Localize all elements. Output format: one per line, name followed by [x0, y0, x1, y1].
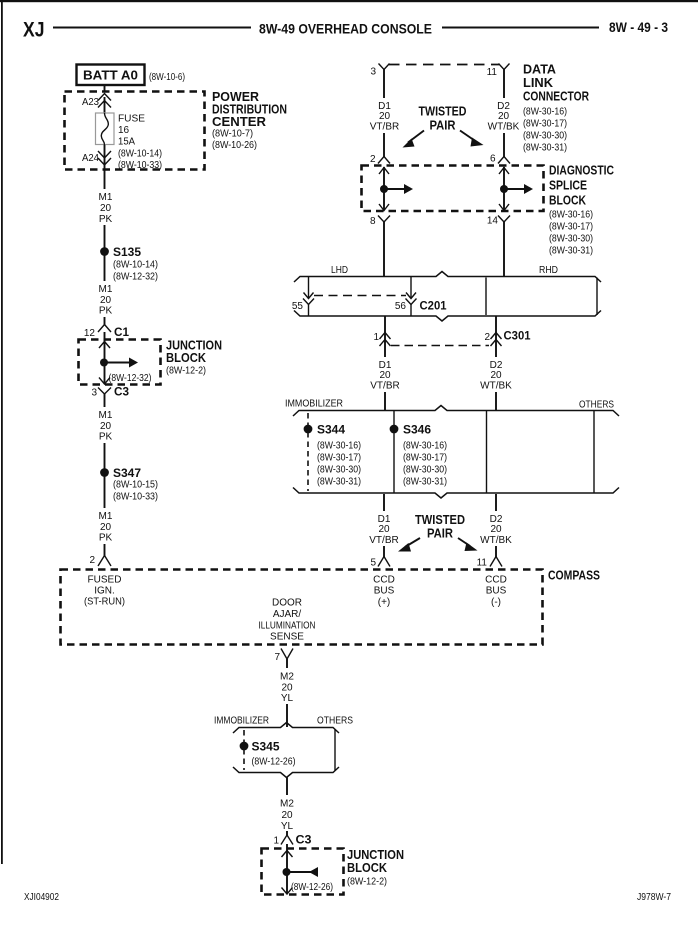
connector band C201 outline: [294, 272, 601, 322]
svg-text:FUSE: FUSE: [118, 114, 145, 125]
svg-text:S346: S346: [403, 423, 431, 437]
page left border line: [1, 0, 3, 864]
svg-text:PAIR: PAIR: [427, 527, 453, 541]
svg-text:20: 20: [100, 421, 112, 432]
svg-text:(8W-30-17): (8W-30-17): [403, 453, 447, 464]
splice band outline (immobilizer/others): [293, 406, 619, 499]
svg-text:S345: S345: [252, 740, 280, 754]
svg-text:RHD: RHD: [539, 265, 558, 276]
svg-text:AJAR/: AJAR/: [273, 609, 302, 620]
svg-text:(8W-12-32): (8W-12-32): [113, 272, 158, 283]
connector C3 pin 1 lower: [273, 833, 311, 847]
svg-text:J978W-7: J978W-7: [637, 892, 671, 903]
connector terminal A24 double chevron: [98, 151, 111, 165]
svg-text:S135: S135: [113, 245, 141, 259]
svg-text:1: 1: [273, 836, 279, 847]
wire through junction block 2: [286, 844, 288, 894]
other circuit line inside S345 band: [334, 729, 336, 771]
svg-text:BATT A0: BATT A0: [83, 69, 138, 83]
svg-text:FUSED: FUSED: [88, 575, 122, 586]
references for S344: [317, 441, 361, 488]
svg-text:PK: PK: [99, 432, 113, 443]
Power Distribution Center dashed box: [65, 92, 205, 170]
header rule right: [442, 27, 599, 29]
svg-text:(8W-30-31): (8W-30-31): [549, 246, 593, 257]
svg-text:14: 14: [487, 216, 499, 227]
svg-text:C301: C301: [504, 329, 531, 343]
svg-text:20: 20: [379, 370, 391, 381]
wire compass pin 7 to S345 band: [286, 659, 288, 668]
svg-text:TWISTED: TWISTED: [415, 513, 465, 527]
svg-text:DOOR: DOOR: [272, 598, 302, 609]
svg-text:M1: M1: [99, 410, 113, 421]
svg-text:BUS: BUS: [486, 586, 507, 597]
svg-text:(8W-30-16): (8W-30-16): [523, 107, 567, 118]
compass pin 7: [274, 649, 293, 664]
svg-text:3: 3: [370, 67, 376, 78]
compass pin 11: [477, 557, 502, 569]
svg-text:(8W-12-2): (8W-12-2): [347, 877, 387, 888]
compass module dashed box: [61, 570, 543, 645]
splice S345 dashed circuit: [240, 730, 280, 770]
arrow out of junction block 2 bottom: [282, 888, 293, 895]
svg-text:6: 6: [490, 154, 496, 165]
svg-text:(8W-10-26): (8W-10-26): [212, 140, 257, 151]
svg-text:OTHERS: OTHERS: [317, 716, 353, 727]
references for S135: [113, 260, 158, 283]
connector terminal A23 double chevron: [98, 94, 111, 108]
svg-text:15A: 15A: [118, 137, 135, 148]
junction block 1 dashed box: [79, 340, 161, 385]
svg-text:S344: S344: [317, 423, 345, 437]
references for DLC: [523, 107, 567, 154]
junction block 2 dashed box: [262, 849, 344, 895]
wire label M1 20 PK: [99, 511, 113, 544]
header rule left: [53, 27, 251, 29]
label JUNCTION BLOCK (8W-12-2): [166, 338, 222, 377]
arrow into splice block at pin 6: [499, 168, 509, 175]
references (8W-10-7) (8W-10-26): [212, 129, 257, 152]
label JUNCTION BLOCK (8W-12-2) lower: [347, 847, 404, 888]
svg-text:(8W-30-30): (8W-30-30): [549, 234, 593, 245]
wire through splice block right: [503, 167, 505, 211]
wire pin 8 to C201 band: [383, 222, 385, 276]
fuse feed box BATT A0: [77, 65, 145, 86]
svg-text:20: 20: [100, 203, 112, 214]
svg-text:WT/BK: WT/BK: [480, 381, 512, 392]
connector C301 pin 1: [373, 332, 390, 346]
svg-text:CONNECTOR: CONNECTOR: [523, 89, 589, 104]
wire through splice block left: [383, 167, 385, 211]
svg-text:(8W-12-26): (8W-12-26): [252, 757, 296, 768]
svg-text:C3: C3: [114, 385, 129, 399]
twisted pair arrow right upper: [460, 131, 484, 147]
fuse 16 element: [96, 113, 115, 145]
wire S135 to C1: [104, 255, 106, 281]
svg-text:8: 8: [370, 216, 376, 227]
svg-text:(8W-12-32): (8W-12-32): [109, 373, 152, 384]
svg-text:A23: A23: [82, 97, 99, 108]
svg-text:20: 20: [281, 810, 293, 821]
svg-text:(8W-10-7): (8W-10-7): [212, 129, 253, 140]
wire C301 to immobilizer band left: [384, 347, 386, 357]
svg-text:(8W-10-14): (8W-10-14): [113, 260, 158, 271]
C201 cavity 55 wire with terminal: [303, 277, 314, 316]
svg-text:3: 3: [91, 388, 97, 399]
svg-text:20: 20: [498, 111, 510, 122]
junction node dot with feed arrow left: [283, 867, 319, 877]
svg-text:IGN.: IGN.: [94, 586, 115, 597]
wire label D2 20 WT/BK: [488, 101, 520, 133]
wire C201 to C301 pin 2: [495, 317, 497, 348]
svg-text:IMMOBILIZER: IMMOBILIZER: [285, 399, 343, 410]
svg-text:BLOCK: BLOCK: [347, 860, 388, 875]
svg-text:(8W-30-17): (8W-30-17): [523, 119, 567, 130]
connector C1 pin 12: [84, 325, 129, 340]
svg-text:YL: YL: [281, 821, 294, 832]
wire C201 to C301 pin 1: [384, 317, 386, 348]
compass output label DOOR AJAR/ ILLUMINATION SENSE: [259, 598, 316, 643]
data link connector dashed outline: [389, 64, 499, 66]
svg-text:11: 11: [477, 558, 488, 569]
svg-text:2: 2: [370, 154, 376, 165]
splice node right with feed arrow: [500, 184, 533, 194]
wire label D1 20 VT/BR: [369, 514, 398, 546]
DLC pin 3: [370, 64, 389, 78]
svg-text:(8W-30-31): (8W-30-31): [317, 477, 361, 488]
splice block pin 6: [490, 154, 510, 165]
references for S346: [403, 441, 447, 488]
twisted pair arrow left lower: [398, 538, 420, 552]
svg-text:(8W-10-6): (8W-10-6): [149, 72, 185, 83]
svg-text:20: 20: [281, 683, 293, 694]
compass input label FUSED IGN. (ST-RUN): [84, 575, 125, 608]
page top border line: [0, 0, 698, 2]
compass input label CCD BUS (+): [373, 575, 395, 609]
wire pin 14 to C201 band: [503, 222, 505, 276]
svg-text:COMPASS: COMPASS: [548, 568, 600, 583]
junction node dot with feed arrow: [100, 358, 138, 368]
svg-text:BLOCK: BLOCK: [166, 350, 207, 365]
svg-text:VT/BR: VT/BR: [369, 535, 398, 546]
svg-text:(8W-30-30): (8W-30-30): [317, 465, 361, 476]
svg-text:M2: M2: [280, 799, 294, 810]
wire A23 to fuse: [104, 97, 106, 113]
wire fuse to A24: [104, 145, 106, 170]
svg-text:(ST-RUN): (ST-RUN): [84, 597, 125, 608]
svg-text:2: 2: [484, 332, 490, 343]
svg-text:WT/BK: WT/BK: [488, 122, 520, 133]
connector C301 pin 2: [484, 332, 501, 346]
wire label D1 20 VT/BR: [370, 101, 399, 133]
DLC pin 11: [487, 64, 510, 79]
svg-text:1: 1: [373, 332, 379, 343]
other circuit line inside C201 band: [485, 278, 487, 316]
svg-text:VT/BR: VT/BR: [370, 122, 399, 133]
svg-text:20: 20: [100, 522, 112, 533]
references for S347: [113, 480, 158, 503]
svg-text:ILLUMINATION: ILLUMINATION: [259, 621, 316, 632]
wire label M2 20 YL: [280, 672, 294, 705]
wire BATT A0 to Power Distribution Center: [104, 85, 106, 92]
svg-text:(8W-10-33): (8W-10-33): [118, 160, 162, 171]
svg-text:PK: PK: [99, 533, 113, 544]
arrow out of splice block at pin 8: [379, 204, 389, 211]
svg-text:(8W-10-33): (8W-10-33): [113, 492, 158, 503]
wire S347 to compass pin 2: [104, 476, 106, 508]
svg-text:(8W-10-14): (8W-10-14): [118, 149, 162, 160]
svg-text:BLOCK: BLOCK: [549, 193, 586, 208]
svg-text:(8W-30-17): (8W-30-17): [549, 222, 593, 233]
dashed link between C201 cavities: [314, 295, 406, 297]
C201 cavity 56 wire with terminal: [406, 277, 417, 316]
arrow into splice block at pin 2: [379, 168, 389, 175]
svg-text:VT/BR: VT/BR: [370, 381, 399, 392]
svg-text:YL: YL: [281, 693, 294, 704]
svg-text:12: 12: [84, 328, 96, 339]
svg-text:11: 11: [487, 67, 498, 78]
wire splice band to compass pin 11: [495, 494, 497, 511]
svg-text:S347: S347: [113, 466, 141, 480]
splice band outline S345 (immobilizer/others): [233, 723, 339, 778]
diagnostic splice block dashed box: [362, 166, 544, 212]
svg-text:M1: M1: [99, 284, 113, 295]
splice node left with feed arrow: [380, 184, 413, 194]
svg-text:(8W-30-30): (8W-30-30): [523, 131, 567, 142]
svg-text:8W-49 OVERHEAD CONSOLE: 8W-49 OVERHEAD CONSOLE: [259, 21, 432, 37]
splice S135: [100, 245, 141, 259]
splice block pin 8: [370, 216, 390, 228]
references for diagnostic splice block: [549, 210, 593, 257]
label POWER DISTRIBUTION CENTER: [212, 89, 287, 129]
svg-text:WT/BK: WT/BK: [480, 535, 512, 546]
arrow into junction block 2 top: [282, 851, 293, 858]
wire label M1 20 PK: [99, 284, 113, 317]
twisted pair arrow right lower: [458, 538, 478, 551]
svg-text:(8W-30-16): (8W-30-16): [403, 441, 447, 452]
svg-text:OTHERS: OTHERS: [579, 400, 614, 411]
wire label M1 20 PK: [99, 192, 113, 225]
svg-text:M2: M2: [280, 672, 294, 683]
svg-text:5: 5: [370, 558, 376, 569]
wire through junction block: [104, 332, 106, 384]
arrow into junction block top: [99, 342, 110, 349]
arrow out of splice block at pin 14: [499, 204, 509, 211]
svg-text:C1: C1: [114, 325, 129, 339]
wire D1 DLC to splice block: [383, 70, 385, 99]
svg-text:56: 56: [395, 301, 407, 312]
svg-text:A24: A24: [82, 153, 99, 164]
arrow out of junction block bottom: [99, 378, 110, 385]
svg-text:(+): (+): [378, 597, 391, 608]
svg-text:C201: C201: [420, 299, 447, 313]
svg-text:(8W-30-31): (8W-30-31): [523, 143, 567, 154]
wire label D2 20 WT/BK: [480, 514, 512, 546]
splice block pin 14: [487, 216, 510, 227]
svg-text:(8W-30-30): (8W-30-30): [403, 465, 447, 476]
svg-text:(8W-30-31): (8W-30-31): [403, 477, 447, 488]
splice block pin 2: [370, 154, 390, 165]
svg-text:C3: C3: [296, 833, 312, 847]
label DIAGNOSTIC SPLICE BLOCK: [549, 163, 614, 208]
svg-text:8W - 49 - 3: 8W - 49 - 3: [609, 20, 668, 35]
svg-text:(8W-30-17): (8W-30-17): [317, 453, 361, 464]
svg-text:BUS: BUS: [374, 586, 395, 597]
svg-text:(8W-12-2): (8W-12-2): [166, 366, 206, 377]
svg-text:(8W-30-16): (8W-30-16): [549, 210, 593, 221]
svg-text:LHD: LHD: [331, 265, 348, 276]
svg-text:SENSE: SENSE: [270, 632, 304, 643]
svg-text:IMMOBILIZER: IMMOBILIZER: [214, 716, 269, 727]
wire PDC to S135: [104, 170, 106, 189]
svg-text:20: 20: [490, 524, 502, 535]
svg-text:(8W-12-26): (8W-12-26): [291, 882, 333, 893]
other circuit line inside C201 band right: [596, 278, 598, 316]
splice S344 dashed circuit: [304, 413, 346, 491]
svg-text:(8W-30-16): (8W-30-16): [317, 441, 361, 452]
wire label M2 20 YL: [280, 799, 294, 833]
wire label D2 20 WT/BK: [480, 360, 512, 392]
label DATA LINK CONNECTOR: [523, 62, 589, 104]
label TWISTED PAIR lower: [415, 513, 465, 541]
svg-text:CCD: CCD: [373, 575, 395, 586]
label TWISTED PAIR upper: [419, 105, 467, 133]
svg-text:CCD: CCD: [485, 575, 507, 586]
wire label D1 20 VT/BR: [370, 360, 399, 392]
compass pin 5: [370, 557, 390, 569]
wire D2 DLC to splice block: [503, 70, 505, 99]
fuse text FUSE 16 15A and references: [118, 114, 162, 172]
other circuit line inside splice band right: [593, 411, 595, 493]
svg-text:CENTER: CENTER: [212, 114, 267, 129]
splice S347: [100, 466, 141, 480]
svg-text:2: 2: [89, 555, 95, 566]
wire splice band to compass pin 5: [383, 494, 385, 511]
compass pin 2: [89, 555, 111, 566]
svg-text:PK: PK: [99, 214, 113, 225]
splice S346 circuit: [390, 411, 432, 493]
svg-text:DIAGNOSTIC: DIAGNOSTIC: [549, 163, 614, 178]
svg-text:20: 20: [379, 111, 391, 122]
wire C3 to S347: [104, 394, 106, 407]
svg-text:SPLICE: SPLICE: [549, 178, 587, 193]
connector C3 pin 3: [91, 385, 129, 399]
svg-text:(-): (-): [491, 597, 501, 608]
svg-text:20: 20: [100, 295, 112, 306]
svg-text:7: 7: [274, 652, 280, 663]
wire label M1 20 PK: [99, 410, 113, 443]
svg-text:PAIR: PAIR: [430, 119, 456, 133]
svg-text:XJ: XJ: [23, 18, 45, 42]
svg-text:(8W-10-15): (8W-10-15): [113, 480, 158, 491]
other circuit line inside splice band: [486, 411, 488, 493]
svg-text:M1: M1: [99, 511, 113, 522]
dashed link C301: [391, 345, 489, 347]
wire C301 to immobilizer band right: [495, 347, 497, 357]
compass input label CCD BUS (-): [485, 575, 507, 609]
svg-text:20: 20: [378, 524, 390, 535]
svg-text:M1: M1: [99, 192, 113, 203]
svg-text:16: 16: [118, 125, 130, 136]
svg-text:PK: PK: [99, 306, 113, 317]
svg-text:55: 55: [292, 301, 304, 312]
twisted pair arrow left upper: [403, 131, 425, 148]
svg-text:20: 20: [490, 370, 502, 381]
svg-text:XJI04902: XJI04902: [24, 892, 59, 903]
svg-text:TWISTED: TWISTED: [419, 105, 467, 119]
wire S345 band to C3: [286, 778, 288, 796]
